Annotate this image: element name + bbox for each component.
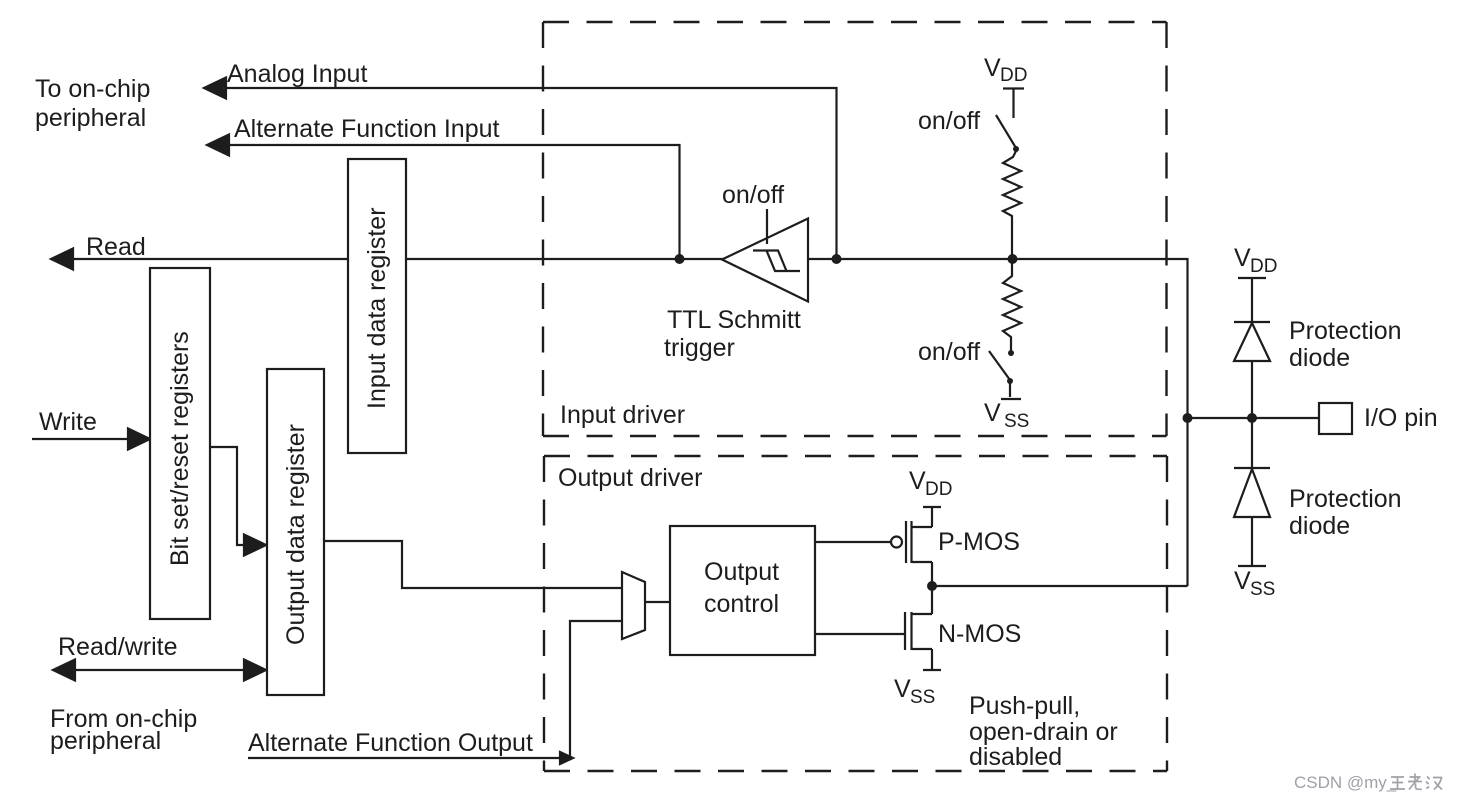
wire: Read/write double arrow bbox=[72, 669, 248, 671]
pull-up: VDD terminal bar bbox=[1003, 89, 1024, 119]
wire: mux to output control bbox=[645, 601, 670, 603]
svg-text:Push-pull,: Push-pull, bbox=[969, 692, 1080, 720]
svg-text:peripheral: peripheral bbox=[50, 727, 161, 755]
arrowhead Analog Input bbox=[204, 78, 226, 99]
svg-text:Write: Write bbox=[39, 408, 97, 436]
svg-text:DD: DD bbox=[925, 479, 952, 500]
svg-text:trigger: trigger bbox=[664, 334, 735, 362]
svg-text:V: V bbox=[909, 467, 926, 495]
svg-text:disabled: disabled bbox=[969, 743, 1062, 771]
svg-text:V: V bbox=[894, 675, 911, 703]
wire: Read bus (main horizontal at y=259) bbox=[51, 258, 1188, 260]
power VSS terminal (N-MOS) bbox=[923, 669, 941, 671]
power VDD terminal (P-MOS) bbox=[923, 506, 941, 508]
svg-text:V: V bbox=[1234, 244, 1251, 272]
svg-text:To on-chip: To on-chip bbox=[35, 75, 150, 103]
arrowhead Alternate Function Input bbox=[207, 135, 229, 156]
wire: output control to P-MOS gate bbox=[815, 541, 891, 543]
arrowhead Write bbox=[128, 429, 150, 450]
svg-text:on/off: on/off bbox=[918, 338, 980, 366]
TTL Schmitt trigger triangle bbox=[722, 219, 808, 302]
box: Output control bbox=[670, 526, 815, 655]
pull-up switch blade bbox=[996, 115, 1016, 148]
svg-text:P-MOS: P-MOS bbox=[938, 528, 1020, 556]
svg-text:Input driver: Input driver bbox=[560, 401, 685, 429]
wire: Alternate Function Input bbox=[207, 145, 680, 258]
wire: right vertical from main line down to MOS drain bbox=[1186, 258, 1188, 586]
arrowhead Read bbox=[51, 249, 73, 270]
wire: Write bbox=[32, 438, 136, 440]
protection diode lower bbox=[1234, 467, 1270, 469]
pull-up switch contact dot bbox=[1013, 146, 1019, 152]
svg-text:Read/write: Read/write bbox=[58, 633, 178, 661]
power VSS terminal (right) bbox=[1238, 565, 1266, 567]
wire: to VSS terminal bbox=[1009, 383, 1011, 397]
on/off stub into trigger bbox=[766, 209, 768, 244]
pull-down switch contact dot bbox=[1007, 378, 1013, 384]
transistor N-MOS bbox=[905, 586, 932, 670]
svg-text:peripheral: peripheral bbox=[35, 104, 146, 132]
node: push-pull drain junction bbox=[927, 581, 937, 591]
resistor: pull-down bbox=[1003, 259, 1021, 351]
wire: output data register to mux bbox=[324, 541, 622, 588]
svg-text:Output: Output bbox=[704, 558, 779, 586]
svg-text:N-MOS: N-MOS bbox=[938, 620, 1021, 648]
node: on right vertical bbox=[1183, 413, 1193, 423]
wire: Alternate Function Output bbox=[248, 621, 622, 758]
arrowhead to output data register bbox=[244, 535, 266, 556]
svg-text:diode: diode bbox=[1289, 512, 1350, 540]
svg-text:control: control bbox=[704, 590, 779, 618]
mux selector bbox=[622, 572, 645, 639]
node: resistor junction on main line bbox=[1008, 254, 1018, 264]
transistor P-MOS bbox=[906, 507, 932, 586]
svg-text:Analog Input: Analog Input bbox=[227, 60, 367, 88]
node: analog input junction bbox=[832, 254, 842, 264]
wire: lower diode to VSS bbox=[1251, 517, 1253, 566]
register box: Input data register bbox=[348, 159, 406, 453]
svg-text:Alternate Function Input: Alternate Function Input bbox=[234, 115, 499, 143]
wire: output control to N-MOS gate bbox=[815, 633, 905, 635]
svg-text:V: V bbox=[984, 54, 1001, 82]
wire: bit-set/reset to output data register bbox=[210, 447, 250, 545]
arrowhead Alternate Function Output bbox=[560, 752, 573, 764]
resistor: pull-up bbox=[1003, 151, 1021, 259]
svg-text:SS: SS bbox=[1004, 411, 1029, 432]
svg-text:Read: Read bbox=[86, 233, 146, 261]
watermark glyph lao bbox=[1408, 774, 1422, 790]
svg-text:I/O pin: I/O pin bbox=[1364, 404, 1438, 432]
node: AF input junction bbox=[675, 254, 685, 264]
svg-text:Bit set/reset registers: Bit set/reset registers bbox=[166, 331, 194, 566]
register box: Output data register bbox=[267, 369, 324, 695]
node: diode junction bbox=[1247, 413, 1257, 423]
svg-text:DD: DD bbox=[1250, 256, 1277, 277]
power VDD terminal (right) bbox=[1238, 278, 1266, 322]
wire: I/O pin line bbox=[1188, 417, 1320, 419]
wire: drain junction to I/O vertical bbox=[932, 585, 1188, 587]
wire: Analog Input bbox=[204, 88, 837, 258]
arrowhead Read/write right bbox=[244, 660, 266, 681]
svg-text:V: V bbox=[1234, 567, 1251, 595]
svg-text:TTL Schmitt: TTL Schmitt bbox=[667, 306, 801, 334]
svg-text:Output driver: Output driver bbox=[558, 464, 703, 492]
pull-down switch pivot dot bbox=[1008, 350, 1014, 356]
svg-text:open-drain or: open-drain or bbox=[969, 718, 1118, 746]
register box: Bit set/reset registers bbox=[150, 268, 210, 619]
svg-text:Output data register: Output data register bbox=[282, 424, 310, 645]
dashed box: Output driver bbox=[544, 456, 1167, 771]
arrowhead Read/write left bbox=[53, 660, 75, 681]
svg-text:CSDN @my_: CSDN @my_ bbox=[1294, 773, 1397, 792]
svg-text:Input data register: Input data register bbox=[363, 207, 391, 409]
bubble: P-MOS gate inverter circle bbox=[891, 537, 902, 548]
watermark glyph han bbox=[1426, 777, 1442, 790]
svg-text:on/off: on/off bbox=[722, 181, 784, 209]
svg-text:on/off: on/off bbox=[918, 107, 980, 135]
svg-text:SS: SS bbox=[1250, 579, 1275, 600]
svg-text:diode: diode bbox=[1289, 344, 1350, 372]
pull-down switch blade bbox=[989, 351, 1010, 380]
hysteresis symbol bbox=[753, 251, 800, 272]
svg-text:Protection: Protection bbox=[1289, 317, 1402, 345]
svg-text:V: V bbox=[984, 399, 1001, 427]
svg-text:Protection: Protection bbox=[1289, 485, 1402, 513]
watermark glyph wang bbox=[1390, 777, 1405, 789]
I/O pin square bbox=[1319, 403, 1352, 434]
protection diode upper bbox=[1234, 321, 1270, 323]
dashed box: Input driver bbox=[543, 22, 1167, 436]
power VSS terminal (pull-down) bbox=[1001, 398, 1021, 400]
svg-text:SS: SS bbox=[910, 687, 935, 708]
wire: diode to I/O line bbox=[1251, 361, 1253, 468]
svg-text:Alternate Function Output: Alternate Function Output bbox=[248, 729, 533, 757]
svg-text:DD: DD bbox=[1000, 65, 1027, 86]
